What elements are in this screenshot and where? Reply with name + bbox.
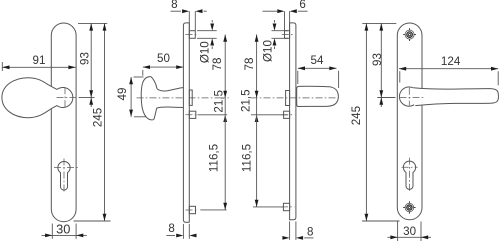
dimension 116,5 arrow bottom (fig3) bbox=[223, 203, 227, 210]
dimension 78 line (fig3) bbox=[224, 35, 226, 98]
backplate of knob fitting (front view) bbox=[51, 23, 76, 222]
dimension 54 arrow right bbox=[329, 66, 336, 70]
dimension D10 line above bbox=[211, 20, 213, 23]
dimension 54 line bbox=[298, 67, 337, 69]
dimension 93 arrow bottom (fig5) bbox=[379, 90, 383, 97]
spindle nub (fig3) bbox=[189, 90, 192, 105]
dimension 30 arrow left (fig1) bbox=[45, 234, 52, 238]
svg-text:245: 245 bbox=[350, 106, 363, 125]
dimension 30 extension right (fig1) bbox=[75, 224, 77, 239]
dimension 30 extension right (fig5) bbox=[420, 222, 422, 241]
dimension 6 extension right bbox=[289, 11, 291, 31]
dimension 8 bottom arrow right (fig3) bbox=[189, 234, 196, 238]
dimension 8 top extension right bbox=[194, 11, 196, 31]
dimension 30 line (fig1) bbox=[42, 234, 87, 236]
dimension D10 extension top (fig4) bbox=[272, 30, 289, 32]
cylinder hole horizontal centreline (fig1) bbox=[54, 167, 79, 169]
extension line handle centre (fig5) bbox=[377, 97, 395, 99]
knob neck top edge bbox=[157, 88, 183, 92]
dimension 30 extension left (fig1) bbox=[51, 224, 53, 239]
dimension D10 line below bbox=[211, 46, 213, 49]
dimension 6 line right tail bbox=[298, 10, 308, 12]
svg-text:Ø10: Ø10 bbox=[261, 40, 274, 62]
dimension 8 top line left tail bbox=[171, 10, 182, 12]
lever handle grip outline bbox=[413, 88, 498, 106]
extension line plate bottom (fig1) bbox=[74, 220, 111, 222]
dimension 21,5 arrow (fig4) bbox=[255, 115, 259, 122]
spindle nub (fig4) bbox=[286, 91, 290, 106]
dimension 124 arrow right bbox=[491, 67, 498, 71]
dimension D10 line below (fig4) bbox=[274, 46, 276, 49]
dimension 8 bottom arrow right (fig4) bbox=[296, 236, 303, 240]
extension line plate top (fig1) bbox=[78, 22, 107, 24]
dimension 93 arrow top (fig5) bbox=[379, 23, 383, 30]
bottom tab centreline (fig4) bbox=[281, 206, 295, 208]
dimension 21,5 arrow (fig3) bbox=[223, 115, 227, 122]
side view centreline (fig4) bbox=[251, 97, 337, 99]
dimension 50 arrow left bbox=[143, 65, 150, 69]
svg-text:124: 124 bbox=[441, 55, 461, 68]
dimension D10 extension top bbox=[197, 30, 217, 32]
dimension 54 arrow left bbox=[298, 66, 305, 70]
dimension 54 extension left bbox=[297, 71, 299, 84]
dimension 78 arrow top (fig4) bbox=[255, 35, 259, 42]
lever crosshair horizontal bbox=[400, 96, 425, 98]
dimension 50 extension left bbox=[142, 70, 144, 76]
euro profile cylinder hole (fig1) bbox=[58, 161, 70, 190]
dimension 30 extension left (fig5) bbox=[397, 222, 399, 241]
dimension 6 line left tail bbox=[263, 10, 278, 12]
knob neck bottom edge bbox=[157, 107, 184, 108]
dimension D10 arrow bottom bbox=[210, 38, 214, 45]
top fixing bush (fig4) bbox=[285, 31, 290, 39]
dimension 124 arrow left bbox=[399, 67, 406, 71]
dimension 8 bottom extension left (fig3) bbox=[182, 224, 184, 239]
extension line knob centre (fig1) bbox=[79, 97, 95, 99]
dimension 124 extension right bbox=[497, 71, 499, 85]
svg-text:78: 78 bbox=[211, 58, 224, 71]
svg-text:54: 54 bbox=[311, 54, 324, 67]
svg-text:49: 49 bbox=[116, 88, 129, 101]
dimension 245 line (fig1) bbox=[104, 23, 106, 221]
top bush centreline (fig3) bbox=[186, 34, 199, 36]
svg-text:8: 8 bbox=[171, 0, 177, 11]
bottom fixing screw (phillips) bbox=[405, 203, 414, 212]
backplate of lever fitting (front view) bbox=[397, 23, 422, 220]
dimension 8 top arrow right bbox=[195, 9, 202, 13]
dimension 49 extension bottom bbox=[134, 116, 148, 118]
dimension 8 bottom arrow left (fig4) bbox=[282, 236, 289, 240]
svg-text:91: 91 bbox=[33, 54, 46, 67]
dimension 93 line (fig5) bbox=[380, 23, 382, 107]
dimension 116,5 arrow bottom (fig4) bbox=[255, 200, 259, 207]
backplate profile (knob side) bbox=[183, 23, 189, 222]
dimension D10 line above (fig4) bbox=[274, 20, 276, 23]
dimension 124 extension left bbox=[399, 71, 401, 82]
top fixing screw (phillips) bbox=[405, 30, 414, 39]
dimension 93 arrow top bbox=[89, 23, 93, 30]
dimension 91 arrow left bbox=[2, 65, 9, 69]
dimension 93 opposing arrow (fig5) bbox=[379, 98, 383, 105]
svg-text:93: 93 bbox=[371, 53, 384, 66]
dimension 6 arrow left bbox=[277, 9, 284, 13]
dimension 8 bottom extension left (fig4) bbox=[289, 221, 291, 240]
dimension 78 arrow bottom (fig3) bbox=[223, 91, 227, 98]
extension line screw centre (fig4) bbox=[251, 114, 288, 116]
dimension D10 arrow top (fig4) bbox=[273, 24, 277, 31]
lever handle (side view) bbox=[297, 86, 339, 106]
euro profile cylinder hole (fig5) bbox=[403, 161, 415, 189]
extension line tab centre (fig3) bbox=[200, 209, 226, 211]
lever handle grip fill bbox=[410, 88, 499, 106]
svg-text:21,5: 21,5 bbox=[240, 89, 253, 112]
knob horizontal centreline bbox=[57, 96, 81, 98]
dimension 116,5 line (fig4) bbox=[256, 115, 258, 207]
bottom tab centreline (fig3) bbox=[186, 209, 199, 211]
extension line tab centre (fig4) bbox=[253, 206, 283, 208]
dimension 6 arrow right bbox=[290, 9, 297, 13]
dimension 78 arrow bottom (fig4) bbox=[255, 91, 259, 98]
dimension 30 arrow right (fig5) bbox=[421, 235, 428, 239]
dimension 8 bottom extension right (fig3) bbox=[188, 224, 190, 239]
dimension 78 arrow top (fig3) bbox=[223, 35, 227, 42]
svg-text:116,5: 116,5 bbox=[208, 144, 221, 172]
dimension 245 arrow bottom (fig1) bbox=[103, 214, 107, 221]
dimension 93 line bbox=[90, 23, 92, 107]
top bush centreline (fig4) bbox=[282, 34, 295, 36]
dimension 54 extension right bbox=[338, 71, 340, 88]
middle bush centreline (fig3) bbox=[186, 114, 199, 116]
dimension 8 bottom extension right (fig4) bbox=[295, 221, 297, 240]
dimension D10 extension bottom (fig4) bbox=[272, 37, 289, 39]
svg-text:30: 30 bbox=[403, 225, 416, 238]
dimension 8 top extension left bbox=[188, 11, 190, 31]
cylinder hole vertical centreline (fig5) bbox=[409, 158, 411, 193]
dimension 8 bottom line tail left (fig3) bbox=[166, 235, 175, 237]
dimension 49 arrow bottom bbox=[129, 110, 133, 117]
extension line screw centre (fig3) bbox=[198, 114, 228, 116]
dimension 124 line bbox=[399, 68, 498, 70]
dimension 8 bottom arrow left (fig3) bbox=[176, 234, 183, 238]
svg-text:245: 245 bbox=[91, 108, 104, 127]
dimension 245 arrow bottom (fig5) bbox=[365, 214, 369, 221]
svg-text:50: 50 bbox=[157, 52, 170, 65]
dimension 78 line (fig4) bbox=[256, 35, 258, 98]
middle bush centreline (fig4) bbox=[281, 114, 294, 116]
cylinder hole horizontal centreline (fig5) bbox=[402, 166, 418, 168]
svg-text:116,5: 116,5 bbox=[240, 144, 253, 172]
dimension 8 bottom line tail right (fig4) bbox=[304, 237, 313, 239]
top fixing bush (fig3) bbox=[189, 31, 195, 39]
svg-text:21,5: 21,5 bbox=[213, 90, 226, 113]
middle fixing bush (fig4) bbox=[284, 111, 290, 118]
dimension 245 arrow top (fig1) bbox=[103, 23, 107, 30]
dimension 50 arrow right bbox=[176, 65, 183, 69]
dimension 91 extension line (left) bbox=[1, 62, 3, 71]
svg-text:30: 30 bbox=[56, 222, 70, 237]
knob vertical centreline bbox=[64, 87, 66, 107]
bottom fixing tab (fig3) bbox=[189, 206, 195, 213]
svg-text:78: 78 bbox=[243, 58, 256, 71]
dimension 49 line bbox=[130, 77, 132, 117]
dimension 6 extension left bbox=[284, 11, 286, 31]
knob head face edge top bbox=[151, 77, 157, 89]
dimension 93 arrow bottom bbox=[89, 90, 93, 97]
lever rose circle bbox=[399, 87, 418, 106]
knob with neck collar (front view) bbox=[2, 78, 73, 118]
dimension 49 extension top bbox=[134, 76, 144, 78]
svg-text:Ø10: Ø10 bbox=[199, 41, 212, 63]
dimension 91 line bbox=[2, 66, 75, 68]
extension line plate bottom (fig5) bbox=[362, 220, 400, 222]
dimension 50 line bbox=[143, 66, 184, 68]
dimension 91 arrow right bbox=[68, 65, 75, 69]
dimension 93 opposing arrow bbox=[89, 98, 93, 105]
dimension 21,5 line (fig3) bbox=[224, 98, 226, 115]
extension line plate top (fig5) bbox=[362, 22, 396, 24]
svg-text:8: 8 bbox=[307, 226, 313, 239]
svg-text:8: 8 bbox=[168, 222, 174, 235]
dimension 30 arrow left (fig5) bbox=[390, 235, 397, 239]
svg-text:93: 93 bbox=[78, 52, 91, 65]
knob head face edge bottom bbox=[154, 108, 157, 119]
dimension D10 arrow top bbox=[210, 24, 214, 31]
dimension 30 line (fig5) bbox=[388, 236, 432, 238]
dimension 49 arrow top bbox=[129, 77, 133, 84]
middle fixing bush (fig3) bbox=[189, 111, 196, 118]
dimension 245 line (fig5) bbox=[365, 23, 367, 221]
svg-text:6: 6 bbox=[299, 0, 305, 11]
lever crosshair vertical bbox=[408, 88, 410, 106]
dimension 30 arrow right (fig1) bbox=[76, 234, 83, 238]
dimension 21,5 line (fig4) bbox=[256, 98, 258, 115]
side view centreline bbox=[137, 97, 229, 99]
dimension 8 top line right tail bbox=[204, 10, 207, 12]
dimension D10 extension bottom bbox=[197, 37, 217, 39]
knob head silhouette (side view) bbox=[141, 77, 154, 120]
bottom fixing tab (fig4) bbox=[283, 203, 289, 210]
cylinder hole vertical centreline (fig1) bbox=[63, 159, 65, 194]
dimension 245 arrow top (fig5) bbox=[365, 23, 369, 30]
dimension 8 top arrow left bbox=[182, 9, 189, 13]
dimension 116,5 line (fig3) bbox=[224, 115, 226, 210]
dimension D10 arrow bottom (fig4) bbox=[273, 38, 277, 45]
backplate profile (lever side) bbox=[290, 23, 296, 220]
